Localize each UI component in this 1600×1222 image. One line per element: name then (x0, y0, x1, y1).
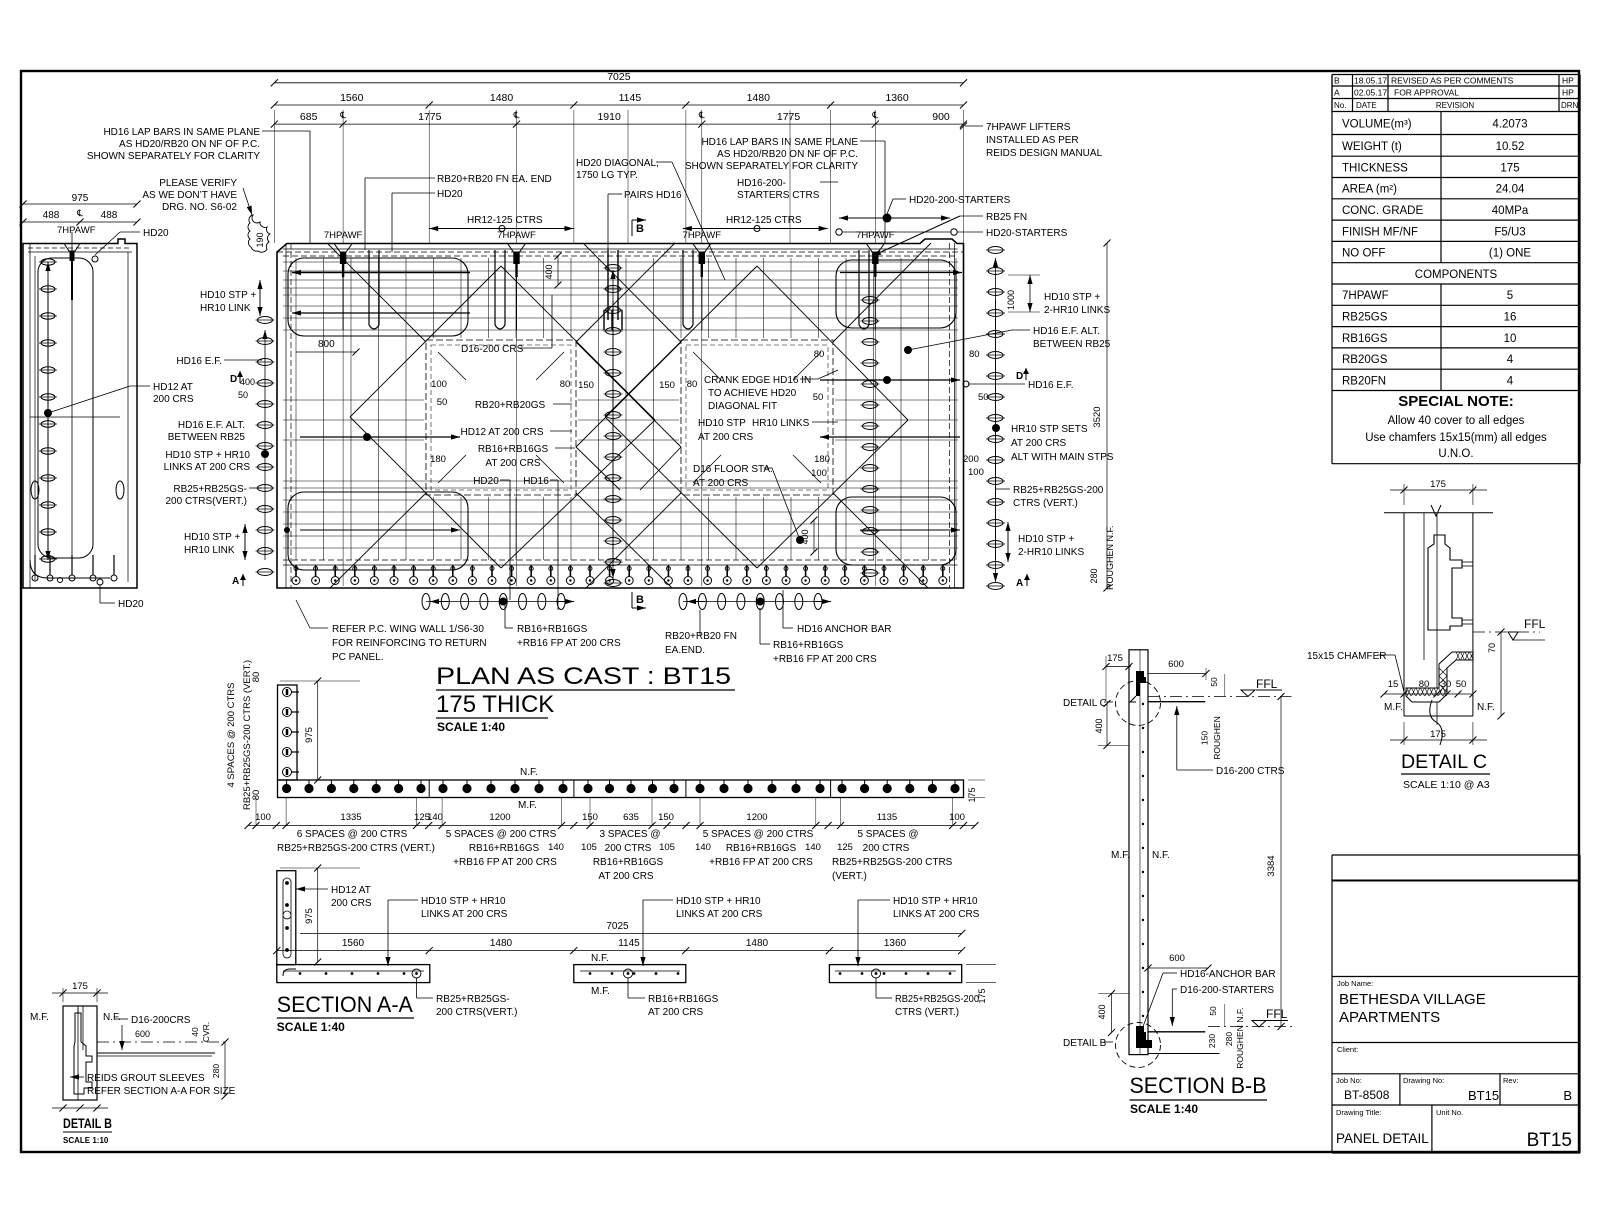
svg-text:175: 175 (1430, 729, 1446, 740)
diagonal braces around left opening (350, 266, 501, 417)
svg-text:PLEASE VERIFY: PLEASE VERIFY (159, 178, 237, 189)
svg-text:02.05.17: 02.05.17 (1354, 88, 1387, 98)
detail B anchor profile (74, 1008, 92, 1094)
svg-text:5 SPACES @ 200 CTRS: 5 SPACES @ 200 CTRS (446, 829, 557, 840)
svg-text:1145: 1145 (619, 92, 642, 104)
cross-section strip (278, 780, 964, 798)
detail C break mark bottom (1430, 700, 1443, 745)
svg-text:50: 50 (813, 392, 824, 403)
svg-text:D16-200-STARTERS: D16-200-STARTERS (1180, 985, 1274, 996)
svg-text:400: 400 (800, 529, 810, 544)
strip dim row (248, 825, 975, 827)
svg-text:HD16 E.F.: HD16 E.F. (176, 356, 222, 367)
left wall mid circles (31, 481, 39, 499)
A-A strip 1 (277, 965, 430, 983)
svg-text:REFER SECTION A-A FOR SIZE: REFER SECTION A-A FOR SIZE (87, 1086, 236, 1097)
svg-text:℄: ℄ (698, 110, 705, 120)
svg-text:N.F.: N.F. (1152, 850, 1170, 861)
svg-text:RB25+RB25GS-200: RB25+RB25GS-200 (1013, 485, 1104, 496)
svg-text:PAIRS HD16: PAIRS HD16 (624, 190, 682, 201)
svg-text:175: 175 (977, 988, 987, 1003)
strip anchors (286, 780, 288, 784)
interior horizontal bars full-width top (283, 261, 958, 263)
ellipse column between openings right (863, 297, 878, 304)
svg-text:AT 200 CRS: AT 200 CRS (485, 458, 541, 469)
svg-text:DRG. NO. S6-02: DRG. NO. S6-02 (162, 202, 237, 213)
svg-text:AT 200 CRS: AT 200 CRS (698, 432, 754, 443)
svg-text:M.F.: M.F. (30, 1012, 49, 1023)
svg-text:200 CRS: 200 CRS (331, 898, 372, 909)
svg-text:1480: 1480 (490, 92, 514, 104)
svg-text:AT 200 CRS: AT 200 CRS (693, 478, 749, 489)
svg-text:140: 140 (427, 812, 443, 823)
svg-text:HD10 STP + HR10: HD10 STP + HR10 (421, 896, 506, 907)
svg-text:800: 800 (318, 339, 335, 350)
B-B wall (1129, 650, 1148, 1055)
svg-text:105: 105 (659, 842, 675, 853)
left wall bottom bolts (34, 555, 36, 575)
svg-text:685: 685 (300, 111, 318, 123)
interior horizontal bars full-width bottom (283, 480, 958, 482)
svg-text:HD20-200-STARTERS: HD20-200-STARTERS (909, 195, 1011, 206)
svg-text:INSTALLED AS PER: INSTALLED AS PER (986, 135, 1079, 146)
svg-text:190: 190 (255, 232, 265, 247)
svg-text:A: A (1334, 88, 1340, 98)
extra crossing diagonals (576, 342, 681, 447)
svg-text:40: 40 (190, 1027, 200, 1037)
svg-text:HD12 AT: HD12 AT (331, 885, 371, 896)
svg-text:7HPAWF: 7HPAWF (57, 225, 96, 236)
svg-text:HD16 E.F.: HD16 E.F. (1028, 380, 1074, 391)
svg-text:+RB16 FP AT 200 CRS: +RB16 FP AT 200 CRS (773, 654, 877, 665)
slot inside (283, 878, 291, 958)
svg-text:FFL: FFL (1266, 1007, 1288, 1021)
svg-text:1910: 1910 (597, 111, 621, 123)
svg-text:200: 200 (963, 454, 979, 465)
plan dims 1560/1480/1145/1480/1360 (274, 104, 963, 106)
svg-text:RB25+RB25GS-: RB25+RB25GS- (173, 484, 247, 495)
svg-text:4: 4 (1507, 375, 1514, 387)
svg-text:200 CTRS: 200 CTRS (605, 843, 652, 854)
svg-text:1480: 1480 (746, 938, 769, 949)
svg-text:REVISED AS PER COMMENTS: REVISED AS PER COMMENTS (1391, 76, 1514, 86)
svg-text:CTRS (VERT.): CTRS (VERT.) (1013, 498, 1078, 509)
dim 3520 (1106, 243, 1108, 588)
svg-text:SCALE 1:40: SCALE 1:40 (1130, 1102, 1198, 1116)
B-B 400 dim top (1106, 704, 1108, 746)
svg-text:180: 180 (430, 454, 446, 465)
svg-text:125: 125 (837, 842, 853, 853)
svg-text:6 SPACES @ 200 CTRS: 6 SPACES @ 200 CTRS (297, 829, 408, 840)
svg-text:RB25+RB25GS-200 CTRS: RB25+RB25GS-200 CTRS (832, 857, 953, 868)
svg-text:80: 80 (251, 790, 262, 801)
svg-text:1200: 1200 (489, 812, 510, 823)
revision table (1332, 74, 1580, 76)
svg-text:7HPAWF: 7HPAWF (324, 230, 363, 241)
svg-text:AT 200 CRS: AT 200 CRS (648, 1007, 704, 1018)
svg-text:50: 50 (978, 392, 989, 403)
under-panel ellipse rows (426, 601, 561, 603)
svg-text:RB20+RB20 FN: RB20+RB20 FN (665, 631, 737, 642)
svg-text:STARTERS CTRS: STARTERS CTRS (737, 190, 820, 201)
svg-text:1135: 1135 (877, 812, 897, 823)
svg-text:℄: ℄ (513, 110, 520, 120)
svg-text:HD16 E.F. ALT.: HD16 E.F. ALT. (1033, 326, 1100, 337)
svg-text:N.F.: N.F. (1477, 702, 1495, 713)
svg-text:(1) ONE: (1) ONE (1489, 248, 1532, 260)
svg-text:488: 488 (101, 210, 118, 221)
svg-text:200 CTRS(VERT.): 200 CTRS(VERT.) (165, 496, 247, 507)
svg-text:HD20: HD20 (118, 599, 144, 610)
svg-text:AS HD20/RB20 ON NF OF P.C.: AS HD20/RB20 ON NF OF P.C. (119, 139, 260, 150)
svg-text:B: B (636, 594, 644, 606)
svg-text:175: 175 (967, 787, 977, 802)
svg-text:70: 70 (1487, 643, 1497, 653)
svg-text:DATE: DATE (1356, 101, 1377, 110)
plan panel outline (277, 239, 964, 588)
svg-text:3384: 3384 (1266, 855, 1277, 876)
svg-text:HD10 STP: HD10 STP (698, 418, 746, 429)
B-B detail B circle (1116, 1023, 1161, 1068)
svg-text:7HPAWF LIFTERS: 7HPAWF LIFTERS (986, 122, 1071, 133)
svg-text:N.F.: N.F. (1235, 1007, 1245, 1022)
svg-text:280: 280 (211, 1064, 221, 1078)
svg-text:B: B (1563, 1088, 1572, 1103)
svg-text:10.52: 10.52 (1496, 141, 1525, 153)
svg-text:400: 400 (240, 377, 255, 387)
svg-text:230: 230 (1207, 1034, 1217, 1048)
opening right corner ticks (693, 352, 721, 380)
svg-text:15x15 CHAMFER: 15x15 CHAMFER (1307, 651, 1386, 662)
svg-text:NO OFF: NO OFF (1342, 248, 1385, 260)
svg-text:CTRS (VERT.): CTRS (VERT.) (895, 1007, 959, 1018)
svg-text:℄: ℄ (76, 208, 83, 218)
left dim 975 (23, 203, 137, 205)
svg-text:1750 LG TYP.: 1750 LG TYP. (576, 170, 638, 181)
svg-text:ROUGHEN: ROUGHEN (1235, 1025, 1245, 1068)
svg-text:HD20: HD20 (143, 228, 169, 239)
svg-text:A: A (1016, 578, 1023, 589)
svg-text:D: D (1016, 371, 1023, 382)
panel inner edge lines (283, 248, 958, 250)
svg-text:Job Name:: Job Name: (1337, 979, 1373, 988)
svg-text:1145: 1145 (618, 938, 640, 949)
svg-text:RB25GS: RB25GS (1342, 311, 1388, 323)
svg-text:180: 180 (814, 454, 830, 465)
svg-text:1480: 1480 (490, 938, 513, 949)
svg-text:150: 150 (658, 812, 674, 823)
svg-text:400: 400 (1097, 1004, 1107, 1019)
svg-text:B: B (636, 223, 644, 235)
panel data table (1332, 134, 1580, 136)
svg-text:100: 100 (255, 812, 271, 823)
svg-text:HD20-STARTERS: HD20-STARTERS (986, 228, 1068, 239)
svg-text:1000: 1000 (1006, 290, 1016, 310)
svg-text:B: B (1334, 76, 1340, 86)
svg-text:200 CTRS: 200 CTRS (863, 843, 910, 854)
svg-text:M.F.: M.F. (591, 986, 610, 997)
svg-text:200 CRS: 200 CRS (153, 394, 194, 405)
detail C 70 dim (1500, 632, 1502, 716)
svg-text:50: 50 (1208, 1006, 1218, 1016)
svg-text:Use chamfers 15x15(mm) all edg: Use chamfers 15x15(mm) all edges (1365, 432, 1547, 444)
svg-text:+RB16 FP AT 200 CRS: +RB16 FP AT 200 CRS (709, 857, 813, 868)
svg-text:TO ACHIEVE HD20: TO ACHIEVE HD20 (708, 388, 797, 399)
detail B wall (63, 1006, 97, 1100)
B-B top anchor (black) (1136, 671, 1146, 696)
revision cloud 190 (248, 215, 270, 252)
svg-text:175 THICK: 175 THICK (436, 691, 554, 718)
svg-text:DETAIL C: DETAIL C (1401, 752, 1487, 773)
svg-text:(VERT.): (VERT.) (832, 871, 867, 882)
A-A strip 2 (574, 965, 686, 983)
A-A seg dims (277, 950, 962, 952)
section A-A left vertical bar (277, 871, 296, 965)
diagonal braces around right opening (605, 266, 757, 417)
svg-text:280: 280 (1089, 568, 1099, 583)
svg-text:Rev:: Rev: (1503, 1076, 1518, 1085)
heavy bar arrows (292, 272, 470, 274)
svg-text:DETAIL B: DETAIL B (63, 1116, 112, 1131)
detail B 175 dim (62, 988, 64, 1002)
svg-text:7025: 7025 (606, 921, 629, 932)
svg-text:HR10 LINK: HR10 LINK (184, 545, 235, 556)
svg-text:AREA (m²): AREA (m²) (1342, 184, 1397, 196)
opening left corner ticks (438, 352, 466, 380)
svg-text:LINKS AT 200 CRS: LINKS AT 200 CRS (676, 909, 763, 920)
svg-text:RB20GS: RB20GS (1342, 354, 1388, 366)
svg-text:RB16+RB16GS: RB16+RB16GS (726, 843, 797, 854)
svg-text:SCALE 1:10: SCALE 1:10 (63, 1136, 109, 1145)
svg-text:APARTMENTS: APARTMENTS (1339, 1009, 1440, 1026)
svg-text:℄: ℄ (339, 110, 346, 120)
svg-text:D16 FLOOR STA.: D16 FLOOR STA. (693, 464, 773, 475)
svg-text:HD10 STP +: HD10 STP + (1044, 292, 1100, 303)
svg-text:HD10 STP + HR10: HD10 STP + HR10 (893, 896, 978, 907)
detail C 175 dims (1403, 484, 1405, 505)
svg-text:CVR.: CVR. (201, 1022, 211, 1042)
svg-text:Client:: Client: (1337, 1045, 1358, 1054)
opening left (window) (426, 340, 576, 495)
corner bar loop bottom-left (288, 492, 468, 570)
svg-text:HD10 STP +: HD10 STP + (184, 532, 240, 543)
interior vertical bars (295, 258, 297, 560)
svg-text:FOR APPROVAL: FOR APPROVAL (1394, 88, 1459, 98)
svg-text:AS WE DON’T HAVE: AS WE DON’T HAVE (142, 190, 237, 201)
svg-text:280: 280 (1224, 1032, 1234, 1046)
svg-text:1360: 1360 (884, 938, 907, 949)
left wall bar loops (38, 258, 93, 558)
svg-text:40MPa: 40MPa (1492, 205, 1529, 217)
svg-text:50: 50 (1209, 677, 1219, 687)
svg-text:D: D (230, 374, 237, 385)
svg-text:100: 100 (949, 812, 965, 823)
svg-text:7HPAWF: 7HPAWF (683, 230, 722, 241)
svg-text:HR10 LINKS: HR10 LINKS (752, 418, 810, 429)
detail B D16 bar (97, 1052, 215, 1054)
left outside ellipse column (258, 317, 273, 324)
plan dims 685/1775/1910/1775/900 (274, 123, 963, 125)
svg-text:SCALE 1:40: SCALE 1:40 (277, 1020, 345, 1034)
svg-text:5 SPACES @: 5 SPACES @ (857, 829, 918, 840)
svg-text:80: 80 (814, 349, 825, 360)
svg-text:FFL: FFL (1524, 617, 1546, 631)
svg-text:REIDS DESIGN MANUAL: REIDS DESIGN MANUAL (986, 148, 1103, 159)
svg-text:BETWEEN RB25: BETWEEN RB25 (168, 432, 246, 443)
svg-text:7HPAWF: 7HPAWF (1342, 290, 1389, 302)
svg-text:DRN.: DRN. (1561, 101, 1581, 110)
svg-text:BT15: BT15 (1527, 1130, 1572, 1151)
svg-text:RB25 FN: RB25 FN (986, 212, 1027, 223)
svg-text:RB16GS: RB16GS (1342, 333, 1388, 345)
svg-text:LINKS AT 200 CRS: LINKS AT 200 CRS (421, 909, 508, 920)
detail C wall outline (1384, 512, 1493, 514)
detail C FFL (1508, 632, 1518, 640)
svg-text:HD10 STP +: HD10 STP + (1018, 534, 1074, 545)
corner bar loop bottom-right (836, 497, 956, 565)
svg-text:18.05.17: 18.05.17 (1354, 76, 1387, 86)
detail B 280 dim (224, 1042, 226, 1096)
svg-text:80: 80 (1419, 679, 1430, 690)
975 dim A-A (317, 868, 319, 962)
svg-text:BT-8508: BT-8508 (1344, 1088, 1390, 1102)
svg-text:RB20FN: RB20FN (1342, 375, 1386, 387)
svg-text:Allow 40 cover to all edges: Allow 40 cover to all edges (1388, 415, 1525, 427)
svg-text:HD10 STP + HR10: HD10 STP + HR10 (676, 896, 761, 907)
svg-text:BETHESDA VILLAGE: BETHESDA VILLAGE (1339, 991, 1486, 1008)
svg-text:3 SPACES @: 3 SPACES @ (599, 829, 660, 840)
svg-text:50: 50 (437, 397, 448, 408)
svg-text:4: 4 (1507, 354, 1514, 366)
svg-text:1775: 1775 (777, 111, 801, 123)
B-B detail C circle (1116, 681, 1161, 726)
svg-text:REVISION: REVISION (1436, 101, 1474, 110)
svg-text:175: 175 (1430, 479, 1446, 490)
svg-text:3520: 3520 (1092, 406, 1103, 427)
wing 975 dim (317, 681, 319, 780)
svg-text:150: 150 (1200, 731, 1210, 745)
B-B bottom anchor (black) (1136, 1026, 1152, 1048)
svg-text:CONC. GRADE: CONC. GRADE (1342, 205, 1423, 217)
svg-text:℄: ℄ (871, 110, 878, 120)
B-B top slab line (1148, 701, 1205, 703)
svg-text:4 SPACES @ 200 CTRS: 4 SPACES @ 200 CTRS (226, 682, 237, 787)
svg-text:HR10 STP SETS: HR10 STP SETS (1011, 424, 1088, 435)
svg-text:SHOWN SEPARATELY FOR CLARITY: SHOWN SEPARATELY FOR CLARITY (685, 161, 859, 172)
svg-text:FFL: FFL (1256, 677, 1278, 691)
svg-text:RB16+RB16GS: RB16+RB16GS (648, 994, 719, 1005)
svg-text:BETWEEN RB25: BETWEEN RB25 (1033, 339, 1111, 350)
svg-text:AS HD20/RB20 ON NF OF P.C.: AS HD20/RB20 ON NF OF P.C. (717, 149, 858, 160)
svg-text:150: 150 (582, 812, 598, 823)
svg-text:PLAN AS CAST : BT15: PLAN AS CAST : BT15 (436, 663, 731, 690)
svg-text:HP: HP (1562, 76, 1574, 86)
svg-text:M.F.: M.F. (1111, 850, 1130, 861)
svg-text:5 SPACES @ 200 CTRS: 5 SPACES @ 200 CTRS (703, 829, 814, 840)
left dims 488/488 (23, 221, 137, 223)
svg-text:SECTION B-B: SECTION B-B (1130, 1073, 1267, 1098)
B-B bottom slab lines (1148, 1031, 1205, 1033)
svg-text:RB25+RB25GS-200: RB25+RB25GS-200 (895, 994, 979, 1005)
svg-text:Job No:: Job No: (1336, 1076, 1362, 1085)
svg-text:RB16+RB16GS: RB16+RB16GS (593, 857, 664, 868)
svg-text:HD12 AT 200 CRS: HD12 AT 200 CRS (460, 427, 543, 438)
B-B 400 dim bottom (1111, 994, 1113, 1033)
svg-text:975: 975 (304, 727, 315, 743)
mid horizontal bars left/mid/right (283, 399, 424, 401)
svg-text:VOLUME(m³): VOLUME(m³) (1342, 119, 1412, 131)
svg-text:15: 15 (1388, 679, 1399, 690)
A-A strip 3 (829, 965, 961, 983)
svg-text:AT 200 CRS: AT 200 CRS (1011, 438, 1067, 449)
svg-text:ROUGHEN N.F.: ROUGHEN N.F. (1105, 525, 1115, 590)
svg-text:HD16-ANCHOR BAR: HD16-ANCHOR BAR (1180, 969, 1276, 980)
svg-text:30: 30 (1441, 679, 1452, 690)
svg-text:140: 140 (805, 842, 821, 853)
svg-text:DIAGONAL FIT: DIAGONAL FIT (708, 401, 777, 412)
svg-text:HD16 E.F. ALT.: HD16 E.F. ALT. (178, 420, 245, 431)
svg-text:HD16 LAP BARS IN SAME PLANE: HD16 LAP BARS IN SAME PLANE (103, 127, 260, 138)
svg-text:80: 80 (969, 349, 980, 360)
svg-text:400: 400 (544, 264, 554, 279)
svg-text:175: 175 (1500, 162, 1519, 174)
svg-text:900: 900 (932, 111, 950, 123)
svg-text:175: 175 (1107, 653, 1123, 664)
bottom anchor row in panel (295, 565, 297, 576)
svg-text:80: 80 (251, 672, 262, 683)
svg-text:RB20+RB20 FN EA. END: RB20+RB20 FN EA. END (437, 174, 552, 185)
svg-text:2-HR10 LINKS: 2-HR10 LINKS (1044, 305, 1110, 316)
svg-text:HR12-125 CTRS: HR12-125 CTRS (726, 215, 802, 226)
svg-text:24.04: 24.04 (1496, 184, 1525, 196)
lifter centre lines through panel (342, 252, 344, 586)
svg-text:WEIGHT (t): WEIGHT (t) (1342, 141, 1402, 153)
svg-text:80: 80 (687, 379, 698, 390)
svg-text:Drawing No:: Drawing No: (1403, 1076, 1444, 1085)
svg-text:COMPONENTS: COMPONENTS (1415, 269, 1498, 281)
svg-text:RB16+RB16GS: RB16+RB16GS (773, 640, 844, 651)
B-B FFL bottom (1252, 1021, 1266, 1028)
additional HD16 pair slots (368, 250, 370, 325)
svg-text:SCALE 1:10 @ A3: SCALE 1:10 @ A3 (1403, 779, 1490, 791)
svg-text:150: 150 (659, 380, 675, 391)
svg-text:HD12 AT: HD12 AT (153, 382, 193, 393)
svg-text:DETAIL C: DETAIL C (1063, 698, 1107, 709)
svg-text:1560: 1560 (342, 938, 365, 949)
svg-text:HD16 ANCHOR BAR: HD16 ANCHOR BAR (797, 624, 891, 635)
svg-text:PANEL DETAIL: PANEL DETAIL (1336, 1131, 1429, 1146)
svg-text:SPECIAL NOTE:: SPECIAL NOTE: (1398, 393, 1514, 410)
svg-text:100: 100 (968, 467, 984, 478)
detail C inner lines (1423, 513, 1425, 660)
svg-text:HR12-125 CTRS: HR12-125 CTRS (467, 215, 543, 226)
svg-text:U.N.O.: U.N.O. (1438, 448, 1473, 460)
svg-text:A: A (232, 576, 239, 587)
left wall section outline (23, 239, 137, 588)
detail C hatched chamfer band (1406, 652, 1473, 702)
svg-text:LINKS AT 200 CRS: LINKS AT 200 CRS (164, 462, 251, 473)
svg-text:Unit No.: Unit No. (1436, 1108, 1463, 1117)
svg-text:Drawing Title:: Drawing Title: (1336, 1108, 1381, 1117)
svg-text:HD10 STP + HR10: HD10 STP + HR10 (165, 450, 250, 461)
svg-text:No.: No. (1334, 101, 1346, 110)
svg-text:50: 50 (1456, 679, 1467, 690)
svg-text:RB25+RB25GS-: RB25+RB25GS- (436, 994, 510, 1005)
svg-text:600: 600 (1169, 953, 1185, 964)
svg-text:RB16+RB16GS: RB16+RB16GS (517, 624, 588, 635)
svg-text:ROUGHEN: ROUGHEN (1212, 716, 1222, 759)
svg-text:975: 975 (304, 908, 315, 924)
